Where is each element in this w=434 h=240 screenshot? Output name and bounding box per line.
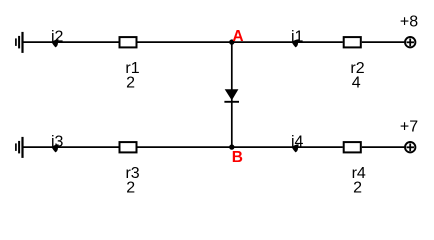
ground (bottom left) bbox=[16, 137, 23, 158]
plus sign in source +7 bbox=[407, 146, 415, 148]
wire r3 to r4 through node B bbox=[138, 146, 343, 148]
resistor r2 bbox=[344, 37, 361, 47]
wire r4 to source +7 bbox=[362, 146, 405, 148]
node B dot bbox=[229, 144, 234, 149]
wire r2 to source +8 bbox=[362, 41, 405, 43]
source +8 circle bbox=[405, 37, 415, 47]
current arrow i3 bbox=[52, 144, 59, 152]
svg-text:2: 2 bbox=[126, 180, 135, 197]
plus sign in source +8 bbox=[407, 41, 415, 43]
diode cathode bar bbox=[224, 101, 239, 103]
svg-text:2: 2 bbox=[353, 180, 362, 197]
svg-text:i1: i1 bbox=[291, 29, 304, 46]
wire ground to r3 (bottom) bbox=[23, 146, 119, 148]
svg-text:i4: i4 bbox=[291, 134, 304, 151]
svg-text:4: 4 bbox=[352, 75, 361, 92]
current arrow i4 bbox=[292, 144, 299, 152]
svg-text:+8: +8 bbox=[400, 14, 418, 31]
current arrow i2 bbox=[52, 39, 59, 47]
diode D1 (A to B) bbox=[225, 89, 239, 100]
svg-text:i3: i3 bbox=[51, 134, 64, 151]
resistor r1 bbox=[120, 37, 137, 47]
svg-text:A: A bbox=[232, 28, 243, 45]
svg-text:B: B bbox=[232, 149, 243, 166]
current arrow i1 bbox=[292, 39, 299, 47]
svg-text:i2: i2 bbox=[51, 29, 64, 46]
svg-text:+7: +7 bbox=[400, 119, 418, 136]
node A dot bbox=[229, 39, 234, 44]
svg-text:2: 2 bbox=[126, 75, 135, 92]
source +7 circle bbox=[405, 142, 415, 152]
resistor r4 bbox=[344, 142, 361, 152]
wire r1 to r2 through node A bbox=[138, 41, 343, 43]
wire ground to r1 (top) bbox=[23, 41, 119, 43]
vertical wire A to B bbox=[231, 42, 233, 147]
ground (top left) bbox=[16, 32, 23, 53]
resistor r3 bbox=[120, 142, 137, 152]
